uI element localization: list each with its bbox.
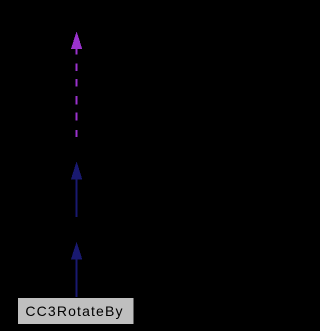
inheritance graph for CC3RotateBy <box>0 0 201 331</box>
svg-text:CC3RotateBy: CC3RotateBy <box>25 303 123 319</box>
wire (upper blue line) <box>76 179 78 217</box>
wire (lower blue line) <box>76 259 78 298</box>
wire (dashed purple line, explicit dash segments) <box>76 49 78 138</box>
arrowhead (upper blue inheritance arrow) <box>71 161 82 179</box>
arrowhead (lower blue inheritance arrow) <box>71 242 82 260</box>
node CC3RotateBy (current class box) <box>18 298 135 325</box>
arrowhead (dashed purple template/usage arrow) <box>71 31 82 49</box>
